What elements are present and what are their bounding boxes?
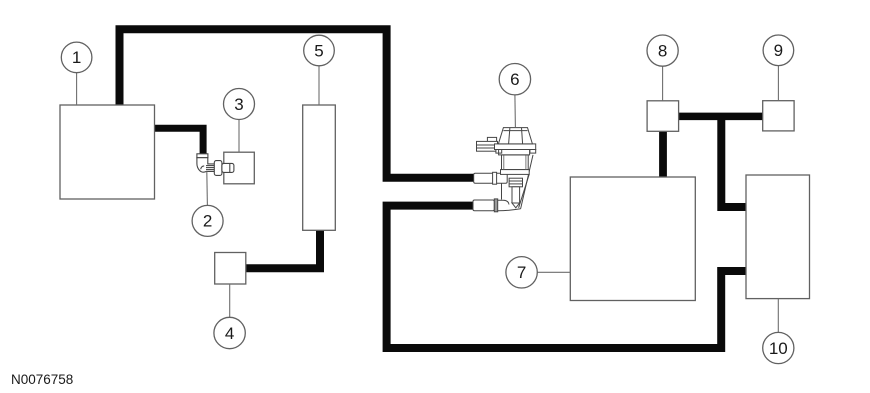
box component 4 [215,253,246,285]
canister component 5 [303,105,336,230]
callout circle 6 [499,63,530,94]
wire: hose from box 8 right to box 9 left [678,113,763,121]
callout line 1 [76,73,78,105]
lower inlet port of valve 6 [473,200,494,211]
svg-text:4: 4 [225,324,234,343]
callout line 2 [206,172,209,206]
callout circle 2 [192,205,223,236]
svg-text:2: 2 [203,212,212,231]
band under flange [499,150,530,155]
callout circle 4 [214,317,245,348]
callout line 7 [537,271,570,273]
svg-text:6: 6 [510,70,519,89]
svg-text:7: 7 [517,263,526,282]
box component 9 [763,101,794,131]
callout line 6 [514,95,517,128]
bottom outline of elbow [498,209,521,211]
callout line 10 [777,299,779,333]
wire: hose from component 1 right side down to fitting 2 [153,128,203,155]
nozzle collar [509,178,522,187]
callout circle 3 [224,89,255,120]
svg-text:8: 8 [658,41,667,60]
svg-text:10: 10 [769,339,788,358]
main solenoid body [502,155,529,170]
fitting component 2 (elbow connector into box 3) [197,154,234,176]
nozzle stem [512,187,520,203]
wire: hose from component 1 top, over the top, down to valve 6 upper port [120,29,476,177]
callout circle 10 [763,332,794,363]
callout circle 1 [61,42,92,73]
wire: hose from valve 6 lower port around the bottom up into box 10 lower port [387,206,746,348]
wire: hose from canister 5 bottom to box 4 [246,229,320,268]
callout circle 8 [647,35,678,66]
callout line 3 [238,120,240,153]
mounting flange [495,144,536,150]
box component 8 [647,101,679,132]
callout line 8 [662,66,664,101]
box component 1 [60,105,155,199]
box component 10 [746,175,810,299]
elbow top line from lower port [498,200,509,204]
callout circle 7 [506,257,537,288]
outer diagonal line [521,155,533,209]
svg-text:1: 1 [72,48,81,67]
wire: hose from box 8 bottom to box 7 top [659,130,667,178]
callout circle 5 [304,35,335,66]
wire: tee branch down from hose 8-9 into box 10 upper port [721,114,746,207]
svg-text:9: 9 [774,41,783,60]
callout line 5 [318,66,320,105]
callout circle 9 [763,35,794,66]
upper inlet port of valve 6 [474,173,508,183]
callout line 9 [777,66,779,101]
box component 3 [224,152,255,184]
svg-text:5: 5 [314,41,323,60]
svg-text:3: 3 [234,95,243,114]
top cap of valve 6 [498,128,532,144]
electrical connector on left of valve 6 [487,137,496,141]
svg-text:N0076758: N0076758 [11,372,73,387]
box component 7 [570,177,695,301]
callout line 4 [229,284,231,318]
inner vertical from body to lower elbow [501,174,503,199]
cone silhouette of valve 6 lower half [498,155,533,211]
valve component 6 (EVAP purge valve) [473,128,536,212]
inner diagonal line [519,174,530,207]
nozzle tip [512,203,520,208]
